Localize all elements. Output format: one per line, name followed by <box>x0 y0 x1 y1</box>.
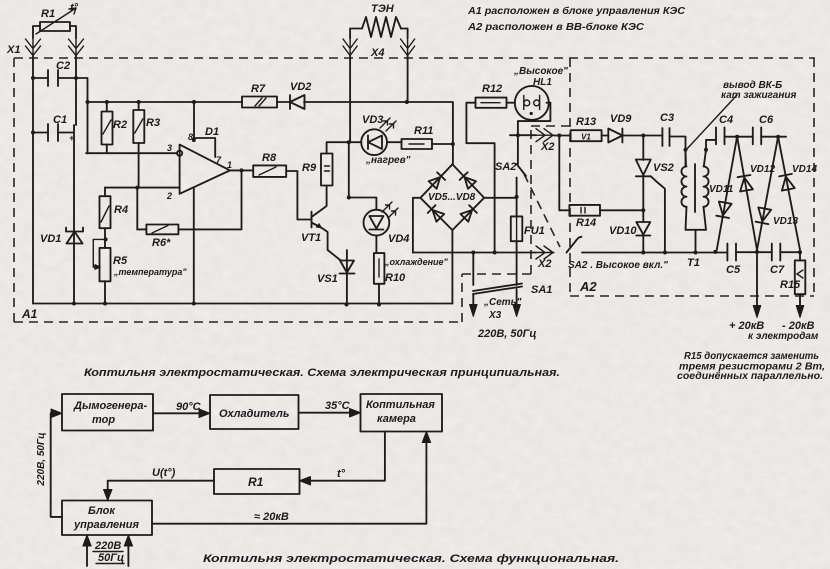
svg-text:VS1: VS1 <box>317 273 338 285</box>
svg-text:А1 расположен в блоке управ: А1 расположен в блоке управления КЭС <box>467 5 686 17</box>
svg-text:FU1: FU1 <box>524 225 545 237</box>
svg-text:VD14: VD14 <box>792 164 817 175</box>
svg-text:А2 расположен в ВВ-блоке КЭ: А2 расположен в ВВ-блоке КЭС <box>467 21 645 33</box>
svg-text:R13: R13 <box>576 116 596 128</box>
svg-text:VD9: VD9 <box>610 113 632 125</box>
svg-text:VD1: VD1 <box>40 233 61 245</box>
svg-text:тор: тор <box>92 414 115 426</box>
svg-text:„температура": „температура" <box>113 267 187 277</box>
svg-text:R6*: R6* <box>152 237 171 249</box>
svg-text:35°C: 35°C <box>325 400 351 412</box>
svg-text:R12: R12 <box>482 83 502 95</box>
svg-text:VD13: VD13 <box>773 216 798 227</box>
svg-text:X4: X4 <box>370 47 384 59</box>
svg-text:Блок: Блок <box>88 505 116 517</box>
svg-text:C7: C7 <box>770 264 785 276</box>
svg-text:Коптильня электростатическая.: Коптильня электростатическая. Схема элек… <box>84 367 560 379</box>
svg-text:90°C: 90°C <box>176 401 202 413</box>
svg-text:„охлаждение": „охлаждение" <box>384 257 449 267</box>
svg-text:„нагрев": „нагрев" <box>365 155 411 166</box>
svg-text:220В: 220В <box>94 540 121 552</box>
svg-text:ТЭН: ТЭН <box>371 3 395 15</box>
svg-text:R3: R3 <box>146 117 160 129</box>
svg-text:R2: R2 <box>113 119 127 131</box>
svg-text:VD12: VD12 <box>750 164 775 175</box>
svg-text:VD5...VD8: VD5...VD8 <box>428 192 476 203</box>
svg-text:V1: V1 <box>581 133 591 142</box>
svg-text:VD4: VD4 <box>388 233 409 245</box>
svg-text:R15 допускается заменить: R15 допускается заменить <box>684 351 819 362</box>
svg-text:HL1: HL1 <box>533 77 552 88</box>
svg-text:C2: C2 <box>56 60 70 72</box>
svg-text:VD2: VD2 <box>290 81 311 93</box>
svg-text:T1: T1 <box>687 257 700 269</box>
svg-text:Коптильня электростатическая.: Коптильня электростатическая. Схема функ… <box>203 553 619 565</box>
svg-text:VS2: VS2 <box>653 162 674 174</box>
svg-text:SA2: SA2 <box>495 161 516 173</box>
svg-text:R1: R1 <box>41 8 55 20</box>
svg-text:А1: А1 <box>21 307 38 321</box>
svg-text:управления: управления <box>73 519 139 531</box>
svg-text:R10: R10 <box>385 272 406 284</box>
svg-text:Охладитель: Охладитель <box>219 408 289 420</box>
svg-text:X2: X2 <box>537 258 551 270</box>
svg-text:X3: X3 <box>488 310 502 321</box>
svg-text:220В, 50Гц: 220В, 50Гц <box>36 432 47 486</box>
svg-text:к электродам: к электродам <box>748 331 819 342</box>
svg-text:R5: R5 <box>113 255 128 267</box>
svg-text:„Сеть": „Сеть" <box>483 297 522 308</box>
svg-text:R1: R1 <box>248 475 264 489</box>
svg-text:C4: C4 <box>719 114 733 126</box>
svg-text:2: 2 <box>166 191 172 201</box>
svg-text:VD10: VD10 <box>609 225 637 237</box>
svg-text:3: 3 <box>167 143 172 153</box>
svg-text:1: 1 <box>227 160 232 170</box>
svg-text:VD11: VD11 <box>709 184 734 195</box>
svg-text:R4: R4 <box>114 204 128 216</box>
svg-text:А2: А2 <box>579 279 597 294</box>
svg-text:Коптильная: Коптильная <box>366 399 435 411</box>
svg-text:кат зажигания: кат зажигания <box>721 90 796 101</box>
svg-text:t°: t° <box>337 468 346 480</box>
svg-text:R8: R8 <box>262 152 277 164</box>
svg-text:R15: R15 <box>780 279 801 291</box>
svg-text:соединённых параллельно.: соединённых параллельно. <box>677 371 823 382</box>
svg-text:R14: R14 <box>576 217 596 229</box>
svg-text:VT1: VT1 <box>301 232 321 244</box>
svg-text:камера: камера <box>377 413 416 425</box>
svg-text:50Гц: 50Гц <box>98 552 124 564</box>
svg-text:R7: R7 <box>251 83 266 95</box>
svg-text:C1: C1 <box>53 114 67 126</box>
svg-text:X1: X1 <box>6 44 20 56</box>
svg-text:C6: C6 <box>759 114 774 126</box>
svg-text:R11: R11 <box>414 125 433 137</box>
svg-text:X2: X2 <box>540 141 554 153</box>
svg-text:U(t°): U(t°) <box>152 467 176 479</box>
svg-text:R9: R9 <box>302 162 317 174</box>
svg-text:VD3: VD3 <box>362 114 383 126</box>
svg-text:„Высокое": „Высокое" <box>513 66 568 77</box>
svg-text:220В, 50Гц: 220В, 50Гц <box>477 328 537 340</box>
svg-text:D1: D1 <box>205 126 219 138</box>
svg-text:+: + <box>69 133 75 143</box>
svg-text:8: 8 <box>188 132 193 142</box>
svg-text:Дымогенера-: Дымогенера- <box>73 400 148 412</box>
svg-text:C3: C3 <box>660 112 674 124</box>
svg-text:t°: t° <box>70 2 79 14</box>
svg-text:≈ 20кВ: ≈ 20кВ <box>254 511 289 523</box>
svg-text:C5: C5 <box>726 264 741 276</box>
svg-text:SA2 . Высокое вкл.": SA2 . Высокое вкл." <box>568 260 668 271</box>
svg-text:SA1: SA1 <box>531 284 552 296</box>
